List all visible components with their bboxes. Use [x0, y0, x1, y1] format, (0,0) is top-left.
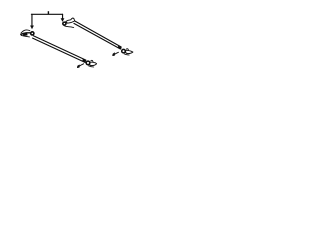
cross rail 2 rear clamp foot	[77, 59, 96, 68]
cross rail 2 tube top edge	[33, 36, 86, 60]
cross rail 1 tube top edge	[75, 21, 122, 47]
cross rail 2 front clamp foot	[21, 30, 34, 37]
callout label 1 (tiny digit above bracket)	[47, 11, 49, 14]
callout right arrowhead	[61, 18, 65, 22]
cross rail 1 rear clamp foot	[113, 46, 133, 56]
cross rail 2 tube bottom edge	[33, 38, 85, 62]
callout right leader line	[62, 14, 64, 18]
callout horizontal bracket line	[31, 13, 62, 15]
callout left arrowhead	[30, 26, 34, 30]
cross rail 1 tube bottom edge	[74, 23, 121, 49]
cross rail 1 front clamp foot	[62, 18, 74, 27]
callout left leader line	[31, 14, 33, 25]
